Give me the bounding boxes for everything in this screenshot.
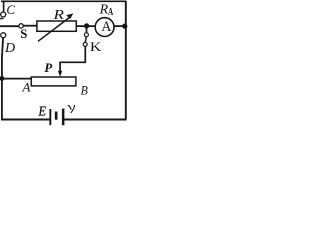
wire: left border junction to potentiometer A end	[2, 78, 31, 80]
switch S circle	[19, 24, 23, 28]
rheostat diagonal arrow	[38, 13, 73, 41]
node on left border (A-wire junction)	[0, 76, 4, 81]
battery plate 3 (long)	[62, 109, 65, 126]
wire: left border from terminal D down to bottom corner	[2, 38, 3, 121]
battery plate 1 (long)	[49, 109, 51, 125]
svg-text:S: S	[20, 27, 27, 41]
junction node (rheostat/ammeter/K)	[84, 23, 89, 28]
wire: bottom return left segment	[1, 119, 50, 121]
switch K top contact circle	[84, 33, 88, 37]
svg-text:A: A	[21, 81, 30, 95]
svg-text:C: C	[6, 2, 15, 17]
wire: left border stub down to terminal C	[3, 1, 5, 12]
switch K bottom contact circle	[83, 42, 87, 46]
terminal D circle	[1, 33, 6, 38]
stray mark below C	[0, 18, 3, 20]
wire: bottom return right segment	[64, 119, 126, 121]
wire: top border	[1, 0, 126, 2]
wire: top wire from image edge to switch S	[0, 25, 19, 27]
svg-text:P: P	[44, 61, 52, 75]
wire: K bottom contact down, across, down to wiper arrow	[60, 46, 85, 71]
svg-text:K: K	[90, 40, 102, 54]
wire: ammeter to right border	[114, 25, 126, 27]
wiper arrowhead onto potentiometer	[58, 71, 62, 77]
svg-text:D: D	[4, 41, 15, 56]
wire: rheostat to ammeter	[76, 25, 95, 27]
svg-text:A: A	[101, 19, 112, 36]
ammeter circle	[95, 18, 114, 37]
svg-text:E: E	[37, 103, 46, 119]
terminal C circle	[1, 12, 6, 17]
svg-text:R: R	[99, 2, 109, 17]
wire: S to rheostat	[23, 25, 37, 27]
rheostat R body	[37, 21, 76, 31]
wire: right border	[125, 1, 127, 120]
svg-text:R: R	[52, 7, 64, 22]
switch K blade	[85, 37, 86, 43]
potentiometer body A-B	[31, 77, 76, 86]
label r (internal resistance, gamma-like glyph)	[68, 105, 75, 113]
wire: junction down to switch K top contact	[86, 26, 88, 33]
battery plate 2 (short thick)	[55, 112, 58, 120]
node on right border	[122, 24, 127, 29]
svg-text:B: B	[81, 83, 89, 97]
svg-text:A: A	[108, 6, 114, 17]
